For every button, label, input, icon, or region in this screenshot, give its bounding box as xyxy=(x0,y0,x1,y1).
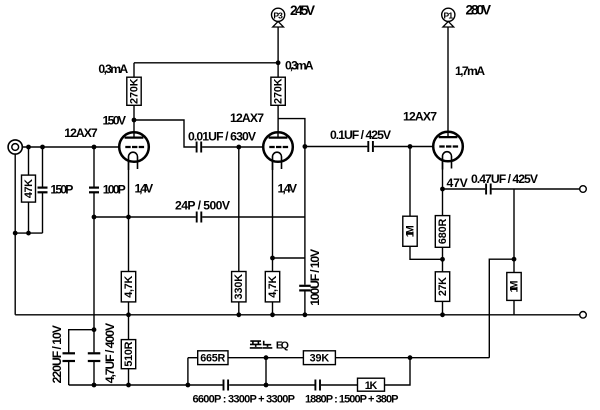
svg-text:1,7mA: 1,7mA xyxy=(455,64,485,78)
svg-text:4,7UF / 400V: 4,7UF / 400V xyxy=(103,322,117,383)
wire: cathode V2 jumper to 100UF xyxy=(273,257,305,259)
node: cathode V1 xyxy=(126,215,131,220)
svg-text:47V: 47V xyxy=(447,176,469,190)
node: EQ mid bottom xyxy=(264,383,269,388)
node: 47K top on grid line xyxy=(26,145,31,150)
svg-text:220UF / 10V: 220UF / 10V xyxy=(50,324,64,383)
tube V2 12AX7 xyxy=(263,132,293,170)
capacitor C8 220UF/10V xyxy=(63,352,76,354)
tube V3 12AX7 xyxy=(433,132,463,170)
wire: plate V1 to coupling cap xyxy=(134,120,196,147)
capacitor C9 4,7UF/400V xyxy=(88,352,101,354)
resistor R12 665R xyxy=(198,351,228,365)
wire: cathode V1 down xyxy=(128,161,130,272)
wire: output down to 1M load xyxy=(513,189,515,259)
node: bus 27K xyxy=(440,312,445,317)
node: 47K bottom xyxy=(26,231,31,236)
svg-text:EQ: EQ xyxy=(276,339,289,351)
wire: 100P column below bus to caps xyxy=(93,217,95,352)
svg-text:270K: 270K xyxy=(273,78,285,104)
resistor R13 39K xyxy=(303,351,335,365)
svg-text:4,7K: 4,7K xyxy=(123,276,135,298)
svg-text:12AX7: 12AX7 xyxy=(64,126,98,140)
wire: EQ left column xyxy=(187,358,189,385)
svg-text:0,3mA: 0,3mA xyxy=(285,58,314,72)
svg-text:0.47UF / 425V: 0.47UF / 425V xyxy=(471,172,539,186)
svg-text:0.1UF / 425V: 0.1UF / 425V xyxy=(330,128,392,142)
power symbol P3 xyxy=(272,8,285,21)
wire: cathode V3 down xyxy=(442,161,444,216)
capacitor C6 24P/500V xyxy=(196,212,198,223)
node: cathode V3 47V xyxy=(440,187,445,192)
wire: P1 feed down to plate V3 xyxy=(447,27,449,132)
node: EQ right xyxy=(408,355,413,360)
node: bus 330K xyxy=(236,312,241,317)
wire: P3 feed down xyxy=(277,27,279,77)
wire: plate V2 branch right xyxy=(278,119,305,147)
svg-text:665R: 665R xyxy=(200,353,225,365)
node: 100UF bottom on bus xyxy=(303,312,308,317)
svg-text:1K: 1K xyxy=(365,380,378,392)
wire: jack shell down left side xyxy=(14,154,16,315)
resistor R9 4,7K (cathode V1) xyxy=(121,272,135,302)
wire: cathode V2 down xyxy=(272,161,274,272)
capacitor C2 100P xyxy=(93,147,95,187)
wire: EQ bottom row xyxy=(229,384,314,386)
node: jack/ground link xyxy=(13,231,18,236)
resistor R6 680R (cathode V3) xyxy=(435,216,449,248)
capacitor C5 0.47UF/425V output xyxy=(443,188,486,190)
output terminal top xyxy=(580,186,587,193)
node: grid V3 xyxy=(408,144,413,149)
wire: bottom EQ rail xyxy=(69,384,223,386)
node: 510R bottom xyxy=(126,383,131,388)
wire: cathode link line xyxy=(94,216,196,218)
resistor R14 1K xyxy=(358,378,385,391)
resistor R1 47K xyxy=(28,147,30,175)
svg-text:1,4V: 1,4V xyxy=(278,182,298,196)
svg-text:47K: 47K xyxy=(23,179,35,198)
wire: EQ mid column xyxy=(265,358,267,385)
wire: B+ rail to P3 node xyxy=(134,62,278,64)
svg-text:0,3mA: 0,3mA xyxy=(98,62,128,76)
output terminal bottom xyxy=(580,312,587,319)
svg-text:245V: 245V xyxy=(290,3,316,18)
svg-text:510R: 510R xyxy=(123,341,135,366)
svg-text:1880P : 1500P + 380P: 1880P : 1500P + 380P xyxy=(305,394,399,406)
svg-text:100UF / 10V: 100UF / 10V xyxy=(308,248,322,306)
wire: input grid line stage 1 xyxy=(22,146,119,148)
wire: x=305 column down to 100UF xyxy=(304,147,306,285)
resistor R3 330K (grid V2) xyxy=(236,145,241,150)
node: 220UF jumper xyxy=(92,327,97,332)
input jack J1 xyxy=(8,140,22,154)
svg-text:12AX7: 12AX7 xyxy=(403,109,437,123)
resistor R11 510R xyxy=(121,340,135,369)
svg-text:24P / 500V: 24P / 500V xyxy=(175,199,231,213)
wire: EQ top row left xyxy=(188,357,198,359)
svg-text:27K: 27K xyxy=(437,277,449,296)
capacitor C7 100UF/10V xyxy=(299,285,311,287)
capacitor C11 1880P xyxy=(314,380,316,391)
wire: feedback riser xyxy=(489,259,514,358)
node: 1M load top xyxy=(512,257,517,262)
svg-text:P1: P1 xyxy=(444,10,454,20)
tube V1 12AX7 xyxy=(119,132,149,170)
svg-text:12AX7: 12AX7 xyxy=(230,111,264,125)
svg-text:1M: 1M xyxy=(508,281,520,293)
svg-text:1,4V: 1,4V xyxy=(135,182,155,196)
svg-text:0.01UF / 630V: 0.01UF / 630V xyxy=(188,129,257,143)
node: 680R/1M junction xyxy=(440,257,445,262)
svg-text:280V: 280V xyxy=(466,3,492,18)
svg-text:680R: 680R xyxy=(437,218,449,244)
svg-text:330K: 330K xyxy=(233,274,245,300)
svg-text:6600P : 3300P + 3300P: 6600P : 3300P + 3300P xyxy=(193,394,296,406)
svg-text:150V: 150V xyxy=(103,114,127,128)
wire: ground bus xyxy=(15,314,580,316)
capacitor C10 6600P xyxy=(223,380,225,391)
node: 4,7UF bottom xyxy=(92,383,97,388)
node: EQ mid top xyxy=(264,355,269,360)
node: 150P top xyxy=(40,145,45,150)
node: cathode V2 xyxy=(270,256,275,261)
svg-text:270K: 270K xyxy=(128,78,140,104)
svg-text:4,7K: 4,7K xyxy=(267,276,279,298)
node: 100P top xyxy=(92,145,97,150)
resistor R5 1M (grid V3) xyxy=(409,147,411,217)
node: plate V2 output xyxy=(303,144,308,149)
wire: jumper to 220UF top xyxy=(69,330,94,353)
resistor R10 4,7K (cathode V2) xyxy=(265,272,279,302)
capacitor C4 0.1UF/425V xyxy=(305,146,368,148)
resistor R2 270K (plate V1) xyxy=(133,63,135,77)
svg-text:1M: 1M xyxy=(404,225,416,237)
node: 100P bottom xyxy=(92,215,97,220)
capacitor C3 0.01UF/630V xyxy=(196,142,198,153)
svg-text:100P: 100P xyxy=(103,182,126,196)
svg-text:39K: 39K xyxy=(310,353,330,365)
svg-text:150P: 150P xyxy=(50,182,73,196)
wire: bottom link at y=233 xyxy=(15,232,42,234)
resistor R4 270K (plate V2) xyxy=(271,77,285,105)
node: bus 4,7K V1 xyxy=(126,312,131,317)
svg-text:P3: P3 xyxy=(273,10,283,20)
resistor R7 27K xyxy=(435,272,449,302)
node: bus 4,7K V2 xyxy=(270,312,275,317)
label phono EQ (Korean) xyxy=(250,341,272,348)
capacitor C1 150P xyxy=(42,147,44,187)
node: B+ junction xyxy=(276,60,281,65)
node: plate V1 150V xyxy=(132,118,137,123)
node: EQ left xyxy=(186,383,191,388)
power symbol P1 xyxy=(442,8,455,21)
resistor R8 1M (load) xyxy=(513,259,515,272)
